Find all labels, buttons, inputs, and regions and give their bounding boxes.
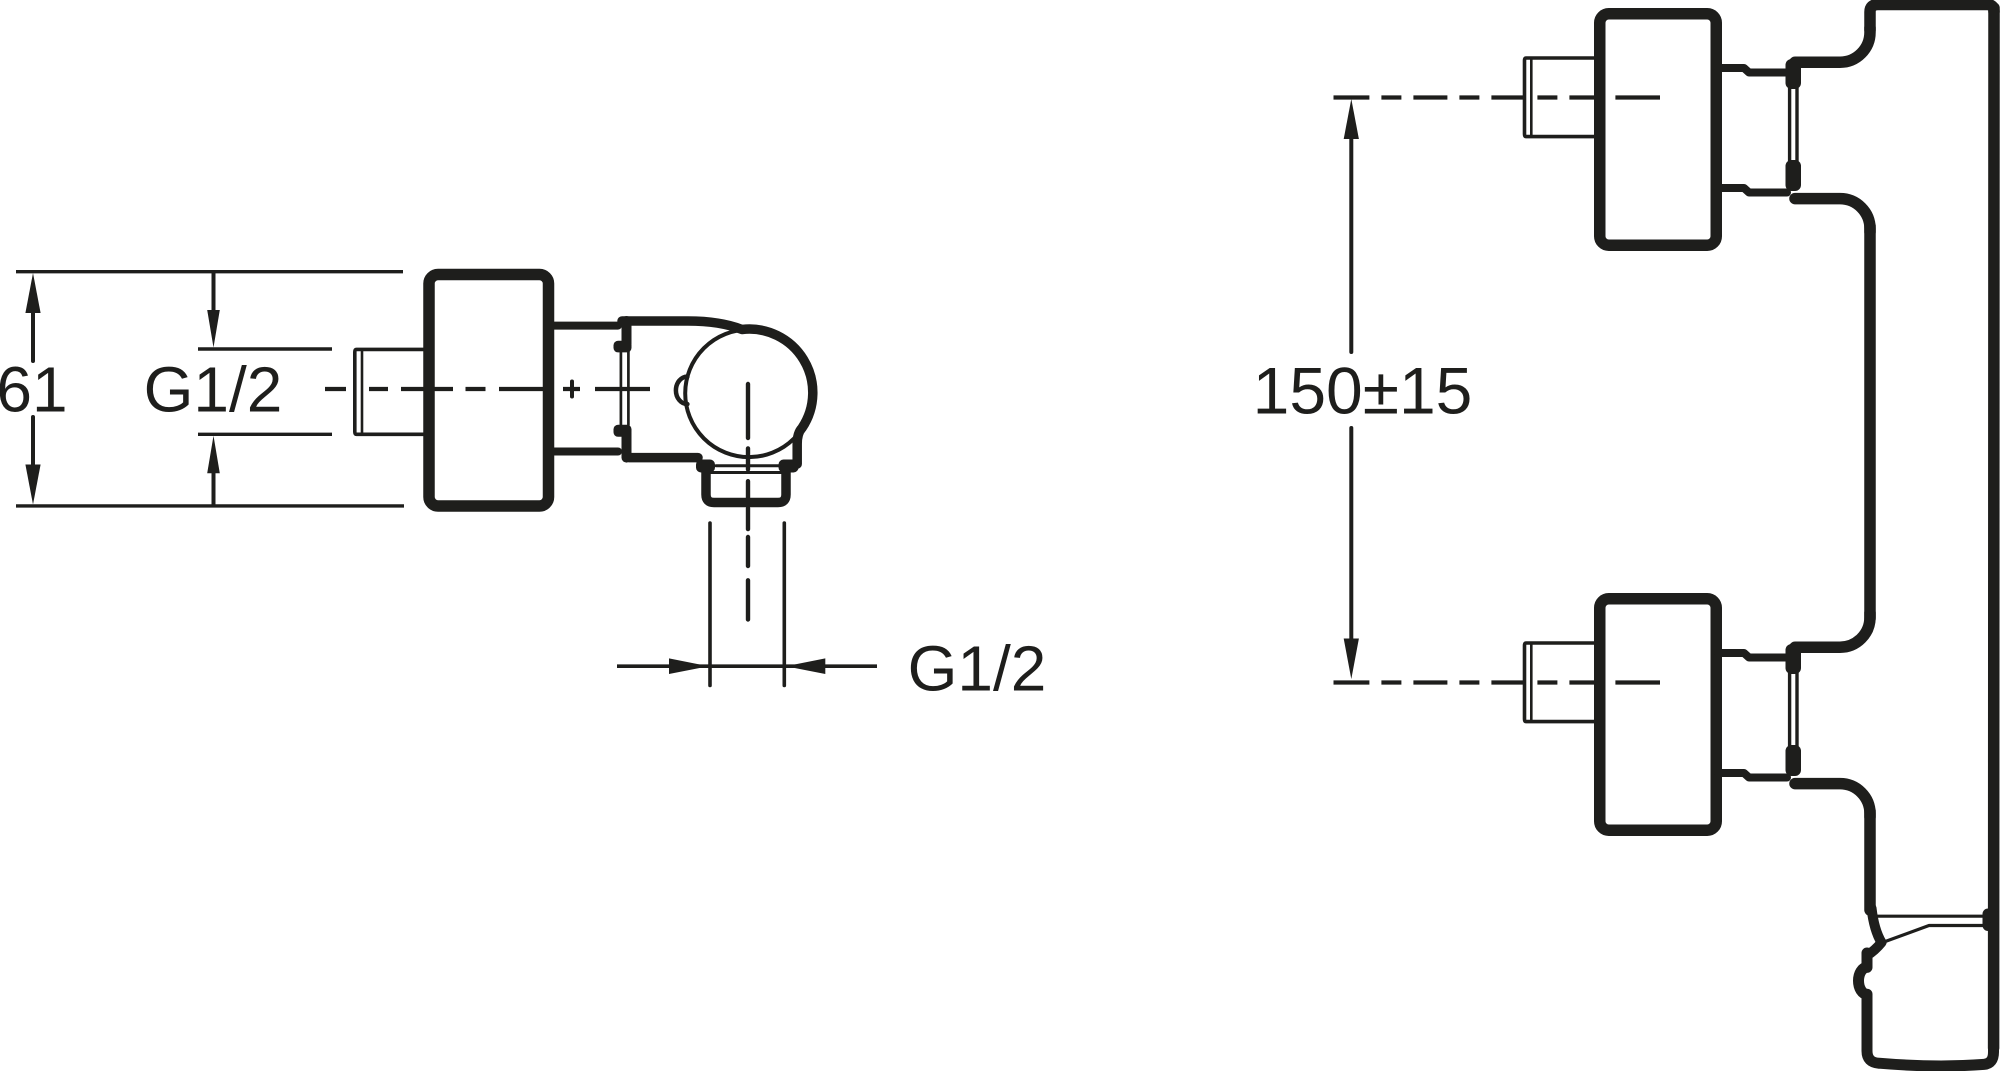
body shoulder upper (1795, 28, 1870, 62)
escutcheon sleeve bottom edge (550, 448, 618, 456)
dimension 61 arrow down (25, 465, 40, 505)
escutcheon sleeve top edge (550, 322, 618, 330)
ball housing circle (685, 330, 813, 458)
handle neck bottom edge (1718, 188, 1787, 193)
ball housing left bump arc (676, 377, 687, 405)
dimension 150±15 arrow down (1344, 639, 1359, 680)
handle assembly bottom (1525, 599, 1871, 831)
handle joint line left (1788, 88, 1791, 164)
handle knob (1600, 14, 1717, 246)
outlet junction line 1 (1871, 915, 1984, 918)
outlet collar thread line 1 (716, 464, 779, 467)
thread diameter extension line top (198, 347, 332, 350)
svg-text:G1/2: G1/2 (144, 354, 283, 426)
sleeve joint cap bottom (614, 425, 632, 437)
svg-text:61: 61 (0, 354, 68, 426)
outlet G1/2 arrow right (669, 658, 709, 674)
handle joint cap top (1786, 59, 1802, 89)
body shoulder lower (1795, 199, 1870, 232)
handle joint line right (1795, 88, 1798, 164)
svg-text:150±15: 150±15 (1253, 354, 1473, 428)
sleeve joint line right (627, 352, 630, 425)
hose outlet body (1859, 927, 1994, 1066)
body right edge (1988, 8, 2000, 1048)
handle assembly top (1525, 14, 1871, 246)
outlet G1/2 dimension line (617, 664, 877, 668)
dimension 61 line upper segment (31, 310, 35, 361)
dimension 61 extension line top (16, 270, 403, 273)
centerline top handle (1334, 95, 1661, 99)
thread diameter arrow up tail (212, 470, 216, 505)
handle neck top edge (1718, 68, 1787, 73)
outlet junction line 2 (1883, 926, 1989, 943)
outlet collar cap left (696, 460, 715, 473)
outlet centerline vertical (746, 384, 750, 620)
handle joint cap bottom (1786, 160, 1802, 191)
centerline bottom handle (1334, 680, 1661, 684)
valve body bottom edge (629, 453, 698, 463)
thread diameter extension line bottom (198, 433, 332, 436)
outlet G1/2 arrow left (786, 658, 826, 674)
valve body left edge lower segment (622, 433, 632, 458)
dimension 150±15 line lower segment (1349, 428, 1353, 642)
dimension 61 line lower segment (31, 417, 35, 467)
handle thread stub chamfer line (1530, 59, 1533, 135)
small tick on sleeve (570, 382, 574, 397)
handle thread stub (1525, 58, 1595, 137)
body left edge between handles (1864, 226, 1876, 619)
svg-text:G1/2: G1/2 (908, 633, 1047, 705)
dimension 61 extension line bottom (16, 504, 404, 507)
outlet G1/2 extension line right (782, 523, 786, 686)
sleeve joint line left (620, 352, 623, 425)
inlet thread stub chamfer line (361, 351, 364, 434)
outlet G1/2 extension line left (708, 523, 712, 686)
outlet collar body (706, 471, 786, 503)
outlet junction cap right (1983, 909, 1999, 932)
thread diameter arrow down tail (212, 272, 216, 313)
dimension 150±15 line upper segment (1349, 136, 1353, 352)
body left edge below bottom handle (1864, 811, 1876, 910)
body top edge (1870, 5, 1994, 31)
centerline horizontal left view (325, 387, 650, 391)
valve body top edge and cap over ball (622, 321, 813, 464)
outlet junction s-curve (1867, 908, 1882, 956)
thread diameter arrow up (207, 436, 220, 474)
valve body left edge upper segment (622, 321, 632, 344)
wall flange side view (429, 275, 549, 507)
outlet collar thread line 2 (711, 471, 783, 474)
dimension 150±15 arrow up (1344, 99, 1359, 139)
inlet thread stub side view (355, 349, 424, 434)
sleeve joint cap top (614, 341, 632, 353)
thread diameter arrow down (207, 310, 220, 348)
dimension 61 arrow up (25, 273, 40, 313)
outlet collar cap right (779, 460, 799, 473)
